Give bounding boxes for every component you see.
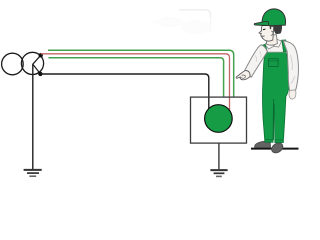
transformer T1 secondary winding xyxy=(21,52,43,74)
node: neutral/earth tap dot xyxy=(38,72,42,76)
person: mouth xyxy=(262,35,265,37)
person: neck xyxy=(267,35,278,46)
person: cap brim xyxy=(254,21,269,25)
wire N black xyxy=(40,74,208,109)
floor line under person xyxy=(251,148,299,150)
person: bib pocket flap line xyxy=(269,60,279,62)
person: hair xyxy=(273,25,282,34)
person: ear xyxy=(271,31,273,35)
wire L1 green (outer) xyxy=(48,50,234,97)
person: right arm sleeve xyxy=(283,41,298,91)
person: trouser hem line xyxy=(265,139,283,142)
person: shirt chest between straps xyxy=(262,40,286,52)
person: eye xyxy=(263,28,266,31)
person: left hand with pointing finger xyxy=(236,70,250,79)
earth conductor from transformer star point xyxy=(32,64,34,169)
appliance earth conductor xyxy=(218,143,220,169)
person: right sleeve fold lines xyxy=(290,55,294,84)
person: back shoe xyxy=(255,141,271,147)
ground (source) xyxy=(24,170,42,176)
person: collar left lapel xyxy=(265,40,274,49)
node: phase tap dot xyxy=(39,53,43,57)
person: overalls body and legs xyxy=(262,52,288,143)
person: nostril xyxy=(261,32,262,34)
faint erased watermark smudge xyxy=(153,10,211,34)
motor M green circle xyxy=(205,105,233,133)
person: bib strap left xyxy=(261,44,268,52)
person: collar right lapel xyxy=(274,39,282,47)
wire L3 green (inner) xyxy=(49,58,224,98)
person: cap dome xyxy=(262,9,286,26)
person: right hand xyxy=(289,90,296,99)
transformer T1 primary winding xyxy=(2,53,24,75)
person: bib strap right xyxy=(282,40,287,52)
appliance enclosure box xyxy=(191,97,247,143)
ground (appliance) xyxy=(210,170,227,176)
wire L2 red xyxy=(41,54,230,111)
person: trouser crease xyxy=(273,99,275,140)
person: left sleeve cuff line xyxy=(245,70,250,76)
person: left arm sleeve xyxy=(245,45,268,77)
person: bib pocket xyxy=(269,59,279,67)
person: sideburn xyxy=(270,26,272,29)
person: front shoe xyxy=(270,141,285,155)
person: curled finger detail xyxy=(242,75,246,78)
person: face profile xyxy=(259,25,274,41)
person: left sleeve fold lines xyxy=(255,51,261,61)
transformer star point wye lines xyxy=(33,55,41,74)
